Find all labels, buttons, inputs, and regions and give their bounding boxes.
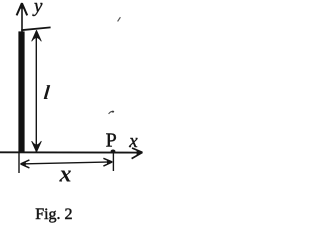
y-axis arrowhead: [17, 2, 28, 15]
tick below origin: [18, 153, 20, 173]
svg-text:x: x: [128, 131, 138, 152]
x dimension right arrowhead: [103, 158, 112, 166]
svg-text:x: x: [59, 162, 72, 188]
l dimension top arrowhead: [32, 30, 41, 41]
l dimension arrow shaft: [35, 31, 37, 151]
scan speck upper right: [118, 17, 121, 21]
tick below P: [112, 153, 114, 172]
tick at rod top: [21, 27, 50, 30]
l dimension bottom arrowhead: [32, 141, 41, 152]
x dimension arrow shaft: [21, 162, 112, 164]
scan speck mid right: [109, 111, 115, 114]
rod (charged line on y-axis): [18, 31, 24, 153]
y-axis shaft: [21, 6, 23, 152]
svg-text:P: P: [106, 129, 117, 151]
node P junction dot: [111, 150, 116, 153]
svg-text:y: y: [32, 0, 43, 17]
svg-text:Fig. 2: Fig. 2: [35, 206, 72, 223]
x dimension left arrowhead: [20, 160, 29, 168]
x-axis shaft: [0, 151, 141, 153]
x-axis arrowhead: [132, 148, 143, 159]
